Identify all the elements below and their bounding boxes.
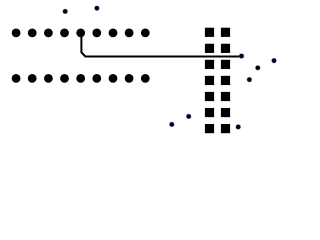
- round pad J2.6: [92, 74, 101, 83]
- wire trace from pad J1.5 to via V3: [81, 33, 241, 57]
- round pad J2.4: [60, 74, 69, 83]
- square pad J3.10: [221, 92, 230, 101]
- round pad J1.8: [125, 29, 134, 38]
- round pad J2.2: [28, 74, 37, 83]
- round pad J1.7: [109, 29, 118, 38]
- square pad J3.1: [205, 28, 214, 37]
- via V3: [239, 53, 244, 58]
- square pad J3.11: [205, 108, 214, 117]
- via V5: [255, 65, 260, 70]
- round pad J2.5: [76, 74, 85, 83]
- round pad J1.4: [60, 29, 69, 38]
- square pad J3.13: [205, 124, 214, 133]
- round pad J2.9: [141, 74, 150, 83]
- round pad J1.9: [141, 29, 150, 38]
- square pad J3.7: [205, 76, 214, 85]
- round pad J1.2: [28, 29, 37, 38]
- square pad J3.4: [221, 44, 230, 53]
- round pad J1.1: [12, 29, 21, 38]
- round pad J2.8: [125, 74, 134, 83]
- square pad J3.6: [221, 60, 230, 69]
- square pad J3.3: [205, 44, 214, 53]
- square pad J3.12: [221, 108, 230, 117]
- via V4: [271, 58, 276, 63]
- round pad J1.6: [92, 29, 101, 38]
- square pad J3.2: [221, 28, 230, 37]
- square pad J3.14: [221, 124, 230, 133]
- via V1: [63, 9, 68, 14]
- via V7: [186, 114, 191, 119]
- square pad J3.8: [221, 76, 230, 85]
- round pad J1.5: [76, 29, 85, 38]
- via V6: [247, 77, 252, 82]
- round pad J2.7: [109, 74, 118, 83]
- round pad J1.3: [44, 29, 53, 38]
- via V2: [94, 6, 99, 11]
- round pad J2.3: [44, 74, 53, 83]
- square pad J3.9: [205, 92, 214, 101]
- via V8: [169, 122, 174, 127]
- square pad J3.5: [205, 60, 214, 69]
- via V9: [236, 124, 241, 129]
- round pad J2.1: [12, 74, 21, 83]
